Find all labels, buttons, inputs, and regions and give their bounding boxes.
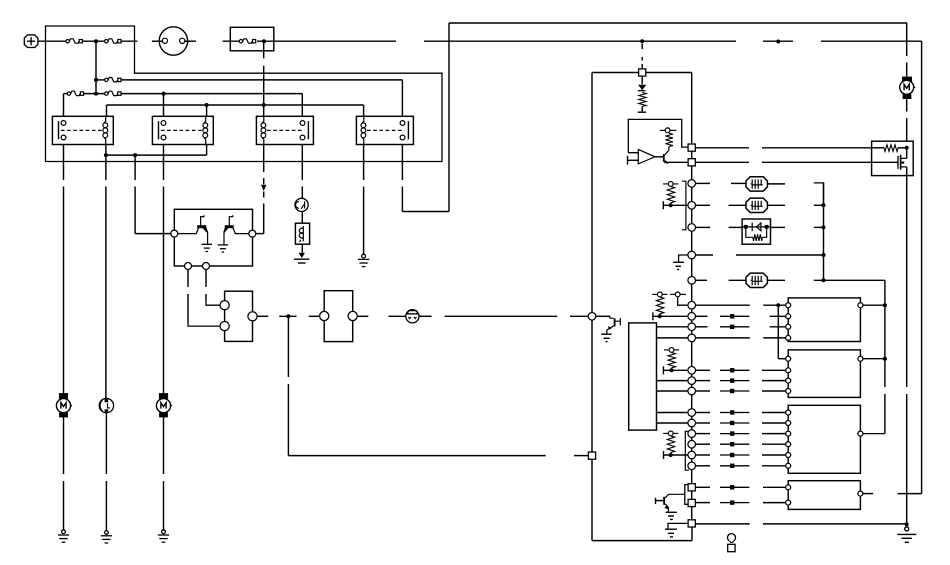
transistor Q4 — [610, 316, 614, 318]
wire — [863, 358, 885, 360]
wire — [763, 502, 786, 504]
ground — [202, 244, 212, 251]
junction — [133, 153, 137, 157]
resistor R7 — [666, 133, 673, 146]
wire — [401, 80, 403, 116]
connector pin — [688, 144, 695, 151]
ground G2 — [101, 531, 112, 543]
fuse F2 — [105, 39, 121, 43]
ground G1 — [58, 530, 69, 542]
pin — [786, 356, 791, 361]
wire — [402, 211, 449, 213]
wire — [691, 151, 693, 159]
wire — [691, 527, 693, 541]
pin — [588, 313, 596, 321]
pin — [858, 431, 863, 436]
wire battery feed — [424, 40, 736, 42]
wire — [256, 233, 264, 235]
terminal bar — [663, 451, 665, 459]
wire — [187, 294, 189, 323]
switch unit C — [788, 405, 860, 473]
wire — [763, 523, 907, 525]
ground G3 — [158, 530, 169, 542]
connector pin — [688, 323, 696, 331]
wire — [263, 145, 265, 173]
wire — [657, 337, 688, 339]
relay coil — [103, 116, 108, 144]
wire — [206, 145, 208, 156]
pin — [171, 230, 178, 237]
wire to motor M2 — [163, 187, 165, 399]
pin — [320, 311, 329, 320]
fuse F6 — [105, 91, 121, 95]
connector key (male) — [728, 544, 735, 551]
wire — [691, 427, 693, 430]
wire battery feed — [223, 40, 240, 42]
internal ground — [679, 255, 688, 262]
fuse F4 — [105, 78, 121, 82]
wire — [691, 470, 693, 484]
wire — [96, 79, 105, 81]
pin — [400, 135, 405, 140]
junction — [670, 368, 674, 372]
wire — [287, 384, 289, 456]
wire — [691, 395, 693, 409]
pin — [348, 311, 357, 320]
pin — [61, 121, 66, 126]
relay coil — [203, 116, 208, 144]
pull-up R11 — [663, 431, 678, 436]
connector pin — [688, 484, 695, 491]
wire — [814, 279, 885, 281]
connector pin — [688, 440, 696, 448]
diode/resistor unit — [742, 219, 770, 244]
splice arrow — [720, 390, 749, 392]
wire to washer motor — [105, 187, 107, 399]
junction — [905, 146, 909, 150]
wire battery feed — [257, 40, 396, 42]
wire — [906, 99, 908, 112]
wire to motor M1 — [63, 145, 65, 181]
wire — [814, 204, 824, 206]
intermittent wiper unit box U1 — [174, 209, 252, 266]
wire — [762, 422, 786, 424]
wire — [762, 465, 786, 467]
wire — [778, 358, 786, 360]
junction — [822, 278, 826, 282]
wire — [691, 437, 693, 440]
junction — [822, 225, 826, 229]
wire — [657, 326, 688, 328]
fuse/relay box outline — [46, 26, 443, 162]
wire — [696, 465, 711, 467]
connector pin — [688, 430, 696, 438]
wire bus — [884, 280, 886, 387]
wire — [696, 390, 711, 392]
wire — [696, 337, 750, 339]
wire — [653, 315, 688, 317]
pin — [248, 312, 257, 321]
pin — [249, 230, 256, 237]
wire — [696, 254, 714, 256]
splice arrow — [720, 486, 749, 488]
transistor Q3 — [663, 154, 665, 162]
wire — [691, 526, 693, 528]
junction — [776, 40, 780, 44]
connector pin — [688, 419, 696, 427]
splice arrow — [720, 369, 749, 371]
connector pin — [688, 313, 696, 321]
junction — [776, 303, 780, 307]
terminal bar — [662, 201, 664, 209]
junction — [205, 103, 209, 107]
pin — [161, 135, 166, 140]
connector pin — [688, 409, 696, 417]
wire battery feed — [121, 40, 137, 42]
wire fan control — [695, 147, 749, 149]
wire — [163, 94, 165, 117]
resistor — [667, 436, 674, 453]
junction — [883, 303, 887, 307]
pull-up R10 — [664, 348, 679, 353]
wire — [736, 254, 824, 256]
pin — [300, 121, 305, 126]
wire battery feed — [821, 40, 922, 42]
pin — [203, 263, 210, 270]
wire — [655, 156, 663, 158]
wire to intermittent unit — [134, 187, 136, 234]
switch unit D — [788, 481, 860, 510]
junction — [104, 153, 108, 157]
wire — [163, 413, 165, 474]
fan control module — [872, 141, 914, 175]
terminal bar — [655, 498, 657, 504]
pin — [786, 324, 791, 329]
wire — [691, 259, 693, 277]
wire — [663, 204, 688, 206]
pull-up R9 — [652, 292, 667, 297]
wire — [641, 44, 643, 50]
wire — [906, 148, 908, 159]
wire fused ignition feed — [263, 66, 265, 117]
wiper motor M1 — [56, 393, 72, 417]
pin — [786, 421, 791, 426]
feedback loop wire — [628, 119, 688, 152]
splice arrow — [720, 412, 749, 414]
rear wiper motor M3 — [156, 393, 172, 417]
wire bus — [95, 41, 97, 94]
terminal bar — [652, 312, 654, 320]
supply terminal — [660, 128, 677, 133]
wire — [596, 315, 610, 317]
wire — [301, 187, 303, 199]
wire — [767, 183, 785, 185]
fuse F1 — [66, 39, 82, 43]
wire — [691, 416, 693, 419]
wire — [664, 454, 688, 456]
splice arrow — [720, 326, 749, 328]
wire — [906, 118, 908, 141]
wire to washer motor — [105, 155, 107, 180]
MOSFET Q6 — [898, 155, 907, 170]
wire fan control — [762, 161, 872, 163]
wire — [696, 422, 711, 424]
wiper switch S1 — [225, 291, 253, 341]
wire bus — [823, 183, 825, 280]
wire — [105, 413, 107, 474]
pin — [858, 356, 863, 361]
pin — [786, 410, 791, 415]
resistor R6 — [639, 93, 646, 107]
wire — [762, 380, 786, 382]
wire — [401, 187, 403, 212]
wire — [762, 412, 786, 414]
supply terminal 2 — [670, 292, 686, 297]
wire — [641, 76, 643, 84]
pin — [786, 463, 791, 468]
wire — [668, 161, 689, 163]
connector bracket — [682, 181, 686, 230]
junction — [658, 314, 662, 318]
wire — [105, 481, 107, 531]
wire top feed — [449, 22, 907, 24]
junction — [262, 103, 266, 107]
wire — [696, 326, 708, 328]
connector pin — [688, 451, 696, 459]
fuse box — [230, 27, 273, 51]
wire — [729, 226, 743, 228]
wire — [729, 204, 746, 206]
relay R1 wiper — [52, 116, 113, 144]
junction — [640, 39, 644, 43]
wire battery feed — [763, 40, 793, 42]
wire — [63, 94, 65, 117]
wire — [691, 491, 693, 500]
wire — [279, 315, 296, 317]
wire — [691, 284, 693, 301]
wire — [863, 304, 885, 306]
indicator lamp — [295, 198, 308, 211]
wire — [301, 94, 303, 117]
wire — [696, 279, 708, 281]
wire — [287, 316, 289, 377]
wire — [135, 233, 171, 235]
junction — [262, 39, 266, 43]
wire — [762, 369, 786, 371]
wire unit bottom — [592, 540, 692, 542]
wire battery feed — [39, 40, 67, 42]
connector pin — [688, 499, 695, 506]
wire — [696, 304, 750, 306]
wire — [696, 226, 711, 228]
wire — [205, 270, 207, 288]
wire — [691, 231, 693, 251]
wire — [696, 486, 711, 488]
wire — [691, 331, 693, 335]
connector pin — [688, 387, 696, 395]
connector pin — [688, 277, 696, 285]
pin — [61, 135, 66, 140]
connector pin — [688, 334, 696, 342]
wire — [263, 178, 265, 184]
connector pin — [688, 202, 696, 210]
wire — [767, 279, 785, 281]
wire — [656, 500, 664, 502]
sensor (thermistor) — [746, 273, 767, 287]
wire — [641, 107, 643, 112]
wire — [301, 145, 303, 181]
wire — [696, 523, 750, 525]
pin — [220, 322, 229, 331]
pin — [400, 121, 405, 126]
wire — [763, 337, 786, 339]
splice arrow — [720, 433, 749, 435]
wire coil return — [106, 154, 207, 156]
wire — [657, 422, 688, 424]
wire — [770, 315, 786, 317]
wire wiper switch to unit — [445, 315, 558, 317]
wire — [657, 412, 688, 414]
wire battery feed — [83, 40, 105, 42]
wire — [696, 443, 711, 445]
wire — [646, 72, 692, 74]
ground with arrow — [299, 253, 305, 258]
wire — [263, 204, 265, 234]
wire — [691, 374, 693, 377]
wire — [696, 433, 711, 435]
wire — [628, 159, 639, 161]
connector pin — [688, 180, 696, 188]
splice arrow — [720, 465, 749, 467]
wire — [691, 342, 693, 367]
wire — [657, 390, 688, 392]
transistor Q2 — [224, 215, 249, 244]
connector key (female) — [728, 534, 736, 543]
wire gate — [872, 161, 898, 163]
wire — [691, 384, 693, 387]
wire — [657, 380, 688, 382]
wire unit signal — [288, 455, 545, 457]
ground — [218, 245, 228, 252]
wire — [388, 315, 406, 317]
resistor — [753, 234, 763, 241]
wire — [663, 369, 688, 371]
wire — [263, 192, 265, 198]
wire to intermittent unit — [134, 155, 136, 180]
solenoid coil — [295, 223, 309, 244]
junction — [286, 314, 290, 318]
pin — [786, 389, 791, 394]
pin — [858, 491, 863, 496]
wire — [691, 309, 693, 313]
pin — [786, 335, 791, 340]
wire to relay R4 — [121, 79, 402, 81]
ignition switch — [159, 27, 187, 55]
pin — [786, 431, 791, 436]
washer switch S2 — [324, 291, 353, 342]
wire — [696, 380, 711, 382]
wire wiper switch to unit — [570, 315, 588, 317]
wire — [691, 320, 693, 323]
pin — [786, 368, 791, 373]
pin — [786, 500, 791, 505]
wire — [767, 204, 785, 206]
terminal bar — [662, 366, 664, 374]
op-amp U3 — [638, 149, 655, 164]
wire ignition feed riser — [921, 41, 923, 493]
wire bus — [884, 394, 886, 434]
wire — [770, 326, 786, 328]
wire — [257, 315, 268, 317]
relay R2 washer — [152, 116, 213, 144]
pin — [786, 314, 791, 319]
connector bracket — [685, 431, 689, 470]
splice arrow — [720, 443, 749, 445]
wire — [641, 57, 643, 61]
wire — [696, 182, 711, 184]
switch unit B — [788, 350, 860, 398]
wire unit signal — [574, 455, 588, 457]
inline connector — [406, 310, 419, 323]
transistor Q1 — [178, 215, 208, 244]
wire — [696, 502, 711, 504]
wire wiper switch to unit — [419, 315, 432, 317]
wire — [401, 145, 403, 181]
wire — [814, 226, 824, 228]
wire to motor M2 — [163, 145, 165, 181]
wire — [762, 390, 786, 392]
wire — [363, 145, 365, 181]
wire — [363, 187, 365, 255]
input terminal — [627, 156, 629, 165]
junction — [94, 92, 98, 96]
wire fan control — [762, 147, 872, 149]
connector pin — [688, 367, 696, 375]
wire — [84, 93, 105, 95]
wire — [762, 454, 786, 456]
pin — [161, 121, 166, 126]
wire — [206, 105, 208, 116]
wire to ground — [906, 394, 908, 524]
wire — [863, 493, 873, 495]
wire — [729, 279, 746, 281]
junction — [94, 39, 98, 43]
wire — [777, 305, 779, 359]
wire — [187, 270, 189, 288]
wire to relay coils — [107, 104, 364, 106]
wire — [696, 412, 711, 414]
resistor — [667, 187, 674, 203]
connector pin — [688, 301, 696, 309]
wire — [691, 459, 693, 462]
junction — [94, 78, 98, 82]
resistor — [656, 297, 663, 314]
wire — [301, 212, 303, 224]
junction — [905, 522, 909, 526]
wire — [163, 481, 165, 530]
wire battery feed — [185, 40, 196, 42]
wire — [691, 507, 693, 520]
wire — [691, 209, 693, 224]
washer pump motor M2 — [99, 398, 113, 412]
sensor (thermistor) — [746, 177, 767, 191]
ground G4 — [358, 254, 369, 266]
wire — [762, 433, 786, 435]
pin — [786, 453, 791, 458]
wire fused ignition feed — [263, 41, 265, 58]
wire — [691, 73, 693, 144]
wire — [696, 315, 708, 317]
